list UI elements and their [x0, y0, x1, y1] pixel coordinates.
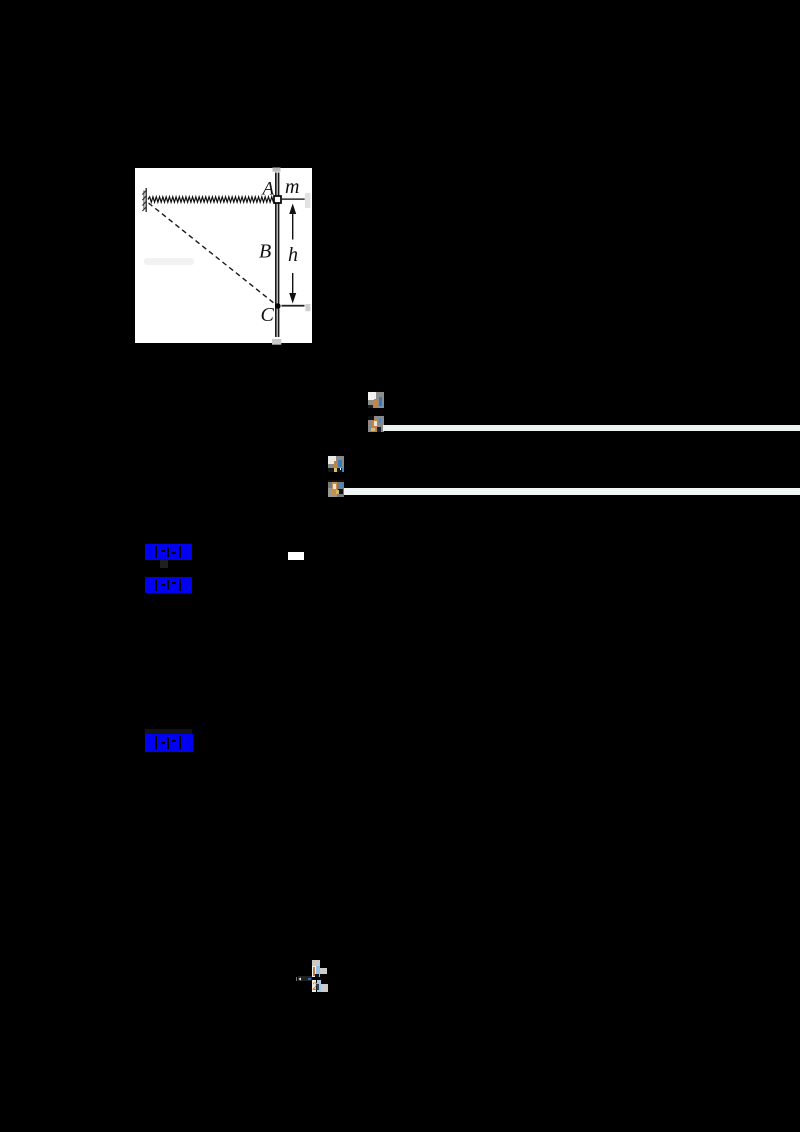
- svg-text:h: h: [288, 244, 298, 266]
- svg-text:A: A: [261, 179, 275, 200]
- svg-text:B: B: [259, 241, 271, 263]
- svg-text:m: m: [285, 176, 299, 198]
- svg-text:C: C: [261, 304, 275, 326]
